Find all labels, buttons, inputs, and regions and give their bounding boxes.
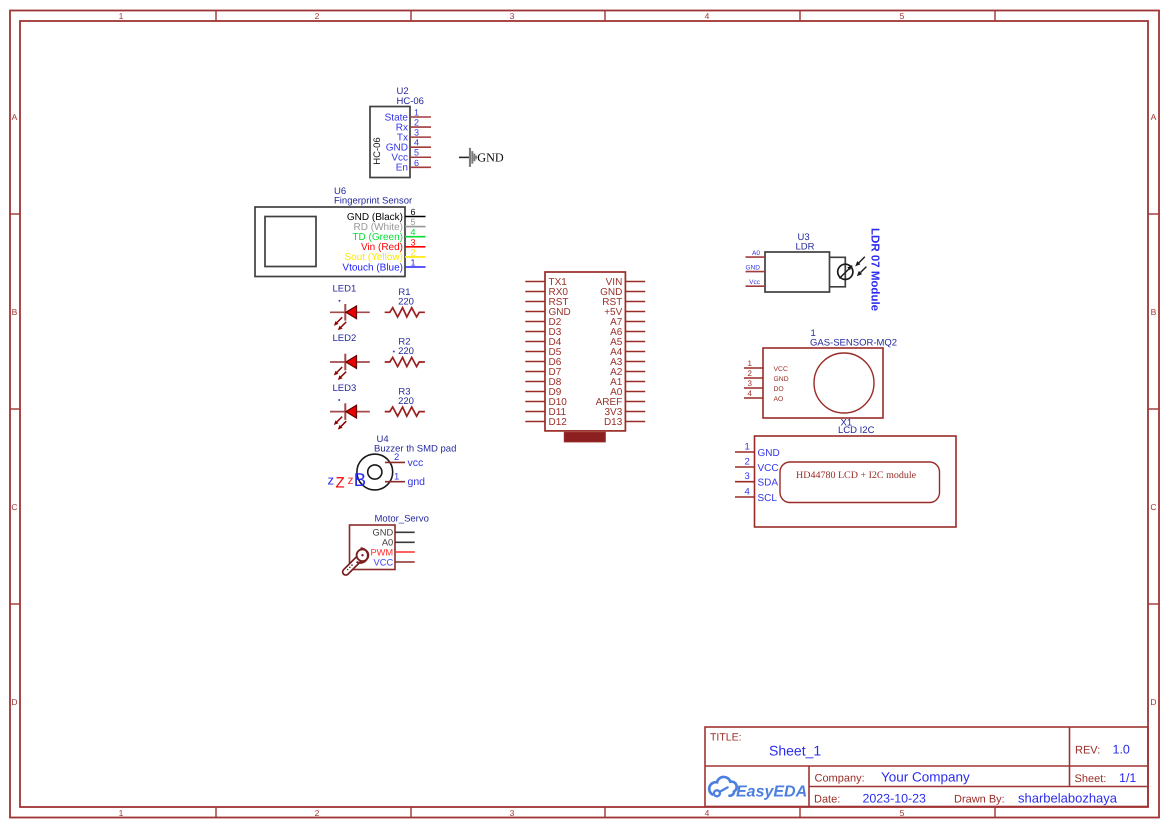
- gas sensor circle: [814, 353, 874, 413]
- fingerprint sensor U6 body: [255, 207, 405, 277]
- svg-text:Z: Z: [336, 475, 345, 492]
- svg-text:4: 4: [705, 808, 710, 818]
- U2 pin 4 GND: [386, 138, 431, 154]
- svg-text:1: 1: [748, 359, 753, 368]
- gas sensor pin 1 VCC: [744, 359, 788, 373]
- buzzer U4 body outer ring: [357, 454, 393, 490]
- svg-text:GND: GND: [373, 528, 394, 538]
- svg-text:sharbelabozhaya: sharbelabozhaya: [1018, 791, 1118, 806]
- svg-text:B: B: [12, 307, 18, 317]
- arduino left pin D2: [525, 317, 561, 328]
- svg-text:TITLE:: TITLE:: [710, 731, 742, 743]
- svg-text:HC-06: HC-06: [372, 137, 383, 164]
- svg-text:4: 4: [705, 11, 710, 21]
- U6 pin 4 TD (Green): [352, 227, 425, 243]
- svg-text:Motor_Servo: Motor_Servo: [375, 514, 429, 525]
- svg-text:A0: A0: [752, 250, 760, 257]
- row letters right: [1150, 112, 1156, 707]
- svg-text:3: 3: [745, 471, 750, 482]
- resistor R1 symbol: [385, 308, 425, 317]
- svg-text:VCC: VCC: [374, 557, 394, 567]
- arduino left pin D4: [525, 337, 561, 348]
- resistor R2 symbol: [385, 357, 425, 366]
- LED1 origin dot: [339, 300, 341, 302]
- servo pin GND: [373, 528, 415, 538]
- arduino left pin GND: [525, 307, 570, 318]
- LCD pin 4 SCL: [735, 487, 777, 505]
- svg-text:4: 4: [411, 227, 416, 237]
- arduino left pin TX1: [525, 277, 567, 288]
- U6 pin 2 Sout (Yellow): [344, 247, 425, 263]
- ground symbol GND: [459, 148, 504, 167]
- svg-text:5: 5: [411, 217, 416, 227]
- arduino left pin D11: [525, 407, 566, 418]
- svg-text:6: 6: [414, 158, 419, 168]
- svg-text:LED3: LED3: [333, 383, 357, 394]
- column tick marks bottom: [216, 807, 995, 818]
- arduino right pin AREF: [596, 397, 646, 408]
- arduino left pin D6: [525, 357, 561, 368]
- U3 pin Vcc: [746, 279, 766, 286]
- svg-text:220: 220: [398, 396, 414, 407]
- svg-text:C: C: [11, 502, 17, 512]
- svg-text:Sheet_1: Sheet_1: [769, 742, 821, 758]
- arduino left pin RX0: [525, 287, 568, 298]
- U2 pin 6 En: [396, 158, 431, 174]
- servo pin A0: [382, 538, 415, 548]
- svg-text:3: 3: [510, 808, 515, 818]
- LCD pin 3 SDA: [735, 471, 778, 489]
- LDR photoresistor wire bracket: [830, 257, 846, 287]
- svg-text:Company:: Company:: [815, 772, 865, 784]
- svg-text:SCL: SCL: [758, 493, 778, 504]
- gas sensor pin 4 AO: [744, 389, 783, 403]
- U6 pin 5 RD (White): [354, 217, 426, 233]
- arduino left pin D5: [525, 347, 561, 358]
- LDR photoresistor circle symbol: [838, 264, 853, 279]
- svg-text:1: 1: [119, 11, 124, 21]
- title block outline: [705, 727, 1148, 807]
- U2 pin 3 Tx: [397, 128, 431, 144]
- servo pin PWM: [370, 547, 414, 557]
- arduino nano body: [545, 272, 625, 431]
- svg-text:GAS-SENSOR-MQ2: GAS-SENSOR-MQ2: [810, 338, 897, 349]
- arduino left pin D3: [525, 327, 561, 338]
- LED LED3 symbol: [330, 403, 370, 429]
- svg-text:4: 4: [414, 138, 419, 148]
- svg-text:5: 5: [414, 148, 419, 158]
- servo icon: [346, 548, 369, 572]
- svg-text:2: 2: [394, 452, 399, 463]
- LCD pin 2 VCC: [735, 457, 779, 475]
- arduino right pin GND: [600, 287, 645, 298]
- R2 origin dot: [393, 351, 395, 353]
- svg-text:LDR 07 Module: LDR 07 Module: [869, 228, 881, 311]
- servo pin VCC: [374, 557, 415, 567]
- column numbers top: [119, 11, 905, 21]
- U6 pin 3 Vin (Red): [361, 237, 426, 253]
- LDR light arrow 1: [859, 257, 865, 263]
- svg-text:1/1: 1/1: [1119, 771, 1136, 785]
- svg-text:DO: DO: [774, 386, 784, 393]
- svg-text:2: 2: [414, 118, 419, 128]
- svg-text:En: En: [396, 163, 408, 174]
- arduino right pin A7: [610, 317, 645, 328]
- svg-text:C: C: [1150, 502, 1156, 512]
- svg-text:vcc: vcc: [408, 457, 424, 469]
- svg-text:Sheet:: Sheet:: [1075, 773, 1107, 785]
- gas sensor pin 2 GND: [744, 369, 789, 383]
- U4 pin 1 gnd: [385, 471, 425, 488]
- svg-text:5: 5: [900, 808, 905, 818]
- svg-text:A: A: [12, 112, 18, 122]
- LED LED1 symbol: [330, 304, 370, 330]
- LDR module U3 body: [765, 252, 830, 292]
- svg-text:VCC: VCC: [774, 366, 788, 373]
- svg-text:2: 2: [748, 369, 753, 378]
- svg-text:2: 2: [411, 247, 416, 257]
- LCD display rounded rect: [780, 462, 940, 503]
- svg-text:LED2: LED2: [333, 333, 357, 344]
- svg-text:A: A: [1151, 112, 1157, 122]
- svg-text:5: 5: [900, 11, 905, 21]
- EasyEDA logo: [709, 777, 807, 801]
- svg-text:2: 2: [315, 808, 320, 818]
- U3 pin GND: [746, 265, 766, 272]
- arduino right pin D13: [604, 417, 645, 428]
- svg-text:LDR: LDR: [796, 242, 815, 253]
- svg-text:LCD I2C: LCD I2C: [838, 425, 875, 436]
- svg-text:1: 1: [411, 258, 416, 268]
- svg-text:HD44780 LCD + I2C module: HD44780 LCD + I2C module: [796, 470, 917, 481]
- LED3 origin dot: [338, 399, 340, 401]
- svg-text:B: B: [1151, 307, 1157, 317]
- column tick marks top: [216, 11, 995, 22]
- svg-text:D: D: [1150, 697, 1156, 707]
- arduino left pin RST: [525, 297, 568, 308]
- arduino right pin +5V: [604, 307, 645, 318]
- row tick marks right: [1148, 214, 1159, 604]
- U2 pin 1 State: [385, 108, 431, 124]
- svg-text:6: 6: [411, 207, 416, 217]
- U4 pin 2 vcc: [385, 452, 423, 469]
- svg-text:VCC: VCC: [758, 463, 779, 474]
- svg-text:3: 3: [414, 128, 419, 138]
- svg-text:4: 4: [745, 487, 750, 498]
- arduino right pin A2: [610, 367, 645, 378]
- svg-text:Drawn By:: Drawn By:: [954, 794, 1005, 806]
- LCD pin 1 GND: [735, 442, 780, 460]
- column numbers bottom: [119, 808, 905, 818]
- arduino right pin A0: [610, 387, 645, 398]
- buzzer zZzB decoration: [328, 469, 367, 492]
- svg-text:GND: GND: [477, 151, 504, 165]
- svg-text:Your Company: Your Company: [881, 769, 970, 784]
- svg-text:gnd: gnd: [408, 476, 426, 488]
- bluetooth module U2 body: [370, 107, 410, 178]
- svg-text:HC-06: HC-06: [397, 96, 424, 107]
- arduino right pin RST: [602, 297, 645, 308]
- svg-text:1: 1: [119, 808, 124, 818]
- svg-text:LED1: LED1: [333, 284, 357, 295]
- arduino usb connector: [564, 432, 605, 442]
- svg-text:1: 1: [394, 471, 399, 482]
- svg-text:220: 220: [398, 346, 414, 357]
- svg-text:Buzzer th SMD pad: Buzzer th SMD pad: [374, 444, 456, 455]
- arduino right pin A3: [610, 357, 645, 368]
- svg-text:GND: GND: [758, 448, 780, 459]
- svg-text:2: 2: [745, 457, 750, 468]
- arduino right pin A4: [610, 347, 645, 358]
- gas sensor body: [763, 348, 883, 418]
- arduino left pin D10: [525, 397, 567, 408]
- resistor R3 symbol: [385, 407, 425, 416]
- arduino left pin D8: [525, 377, 561, 388]
- row tick marks left: [10, 214, 20, 604]
- svg-text:Vcc: Vcc: [749, 279, 761, 286]
- svg-text:z: z: [328, 473, 335, 488]
- svg-text:3: 3: [748, 379, 753, 388]
- svg-text:1: 1: [414, 108, 419, 118]
- svg-text:EasyEDA: EasyEDA: [736, 784, 807, 801]
- svg-text:2: 2: [315, 11, 320, 21]
- svg-text:PWM: PWM: [370, 547, 393, 557]
- arduino right pin A6: [610, 327, 645, 338]
- svg-text:B: B: [354, 469, 366, 490]
- arduino left pin D12: [525, 417, 567, 428]
- svg-text:D: D: [11, 697, 17, 707]
- svg-text:D12: D12: [549, 417, 568, 428]
- svg-text:4: 4: [748, 389, 753, 398]
- svg-text:Date:: Date:: [814, 794, 840, 806]
- arduino right pin VIN: [606, 277, 646, 288]
- arduino left pin D7: [525, 367, 561, 378]
- svg-text:AO: AO: [774, 396, 784, 403]
- fingerprint sensor U6 inner window: [265, 217, 316, 267]
- servo motor body: [350, 525, 396, 570]
- svg-text:220: 220: [398, 297, 414, 308]
- svg-text:Fingerprint Sensor: Fingerprint Sensor: [334, 196, 412, 207]
- LCD module body: [755, 436, 957, 527]
- U3 pin A0: [746, 250, 766, 257]
- row letters left: [11, 112, 17, 707]
- U2 pin 5 Vcc: [391, 148, 431, 164]
- arduino right pin A5: [610, 337, 645, 348]
- U6 pin 1 Vtouch (Blue): [342, 258, 425, 274]
- svg-text:A0: A0: [382, 538, 393, 548]
- gas sensor pin 3 DO: [744, 379, 784, 393]
- arduino right pin 3V3: [605, 407, 646, 418]
- U2 pin 2 Rx: [396, 118, 431, 134]
- title block dividers: [705, 727, 1148, 807]
- LED LED2 symbol: [330, 354, 370, 380]
- svg-text:z: z: [348, 473, 354, 487]
- svg-text:GND: GND: [774, 376, 789, 383]
- svg-text:D13: D13: [604, 417, 623, 428]
- buzzer U4 body inner ring: [368, 465, 382, 479]
- svg-text:1: 1: [745, 442, 750, 453]
- U6 pin 6 GND (Black): [347, 207, 426, 223]
- svg-text:GND: GND: [746, 265, 761, 272]
- svg-text:SDA: SDA: [758, 478, 779, 489]
- svg-text:3: 3: [411, 237, 416, 247]
- arduino right pin A1: [610, 377, 645, 388]
- svg-text:2023-10-23: 2023-10-23: [863, 792, 926, 806]
- LDR light arrow 2: [861, 267, 867, 273]
- arduino left pin D9: [525, 387, 561, 398]
- svg-text:1.0: 1.0: [1113, 743, 1130, 757]
- svg-text:3: 3: [510, 11, 515, 21]
- svg-text:REV:: REV:: [1075, 745, 1100, 757]
- svg-text:Vtouch (Blue): Vtouch (Blue): [342, 262, 403, 273]
